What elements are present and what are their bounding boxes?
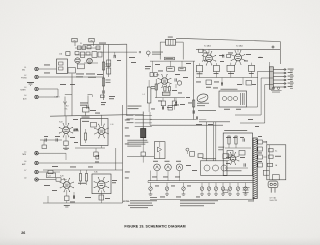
terminal screws rows [273, 69, 286, 88]
notes block left [123, 200, 157, 208]
chassis hatched bar [253, 138, 257, 199]
small box tuner feed [101, 95, 107, 105]
svg-text:J-4: J-4 [24, 95, 26, 97]
terminal labels stack [288, 69, 294, 89]
label V5 6AU6 [204, 45, 211, 48]
tiny label above notes [150, 196, 157, 199]
value labels scatter center [117, 57, 213, 125]
wire preamp cluster row y48 [75, 48, 100, 63]
cathode resistor under V2A [94, 148, 98, 157]
switch position notes [127, 140, 148, 147]
heater tap symbol 10 [244, 183, 248, 196]
svg-text:J-3: J-3 [24, 87, 26, 89]
page number 26 [21, 231, 25, 235]
wire selector bus y116 [50, 114, 143, 116]
wire y52 to test point [100, 52, 137, 58]
cathode parts under V1B [63, 135, 69, 149]
cathode network under V2B [64, 190, 75, 207]
jack J6 [22, 161, 38, 166]
capacitor C2 box [75, 52, 79, 55]
wire vertical x108.6 [108, 45, 110, 77]
jack J4 aux input [23, 95, 58, 100]
wire y119 run [150, 112, 196, 120]
shaded coupling box [162, 92, 170, 95]
resistor R10 box [78, 64, 85, 69]
wire long vertical x126.8 [126, 44, 128, 116]
value labels heater row [152, 165, 200, 197]
heater tube c [176, 164, 183, 171]
svg-text:V-2B: V-2B [60, 176, 63, 178]
value labels scatter right [196, 53, 263, 127]
heater tap symbol 7 [221, 183, 225, 196]
ground symbol left [27, 83, 34, 86]
svg-text:J-8: J-8 [24, 178, 26, 180]
driver box right of switch [154, 142, 165, 159]
tick near B plus [259, 56, 262, 58]
cap pair at y118 [196, 116, 206, 119]
wire V1B V2A plates up [66, 115, 102, 126]
wire y97.6 center [155, 97, 185, 99]
interstage resistor pair [78, 170, 88, 185]
label A-1 amp box [82, 116, 90, 119]
wire filter row y61 [150, 60, 195, 62]
svg-text:TP1: TP1 [73, 40, 76, 42]
bias box 470K [196, 63, 202, 74]
heater tap symbol 3 [182, 183, 186, 196]
wire tape jack row [38, 153, 122, 181]
heater tap symbol 1 [149, 183, 153, 196]
heater tube a [154, 164, 161, 171]
resistor R7 box [86, 52, 90, 55]
feedback wire c [240, 85, 273, 124]
tube V1B triode [59, 122, 73, 138]
selector labels above switch [128, 106, 142, 110]
svg-text:S-1: S-1 [275, 151, 278, 153]
wire y125 run [150, 120, 223, 126]
junction circle right of V3B [175, 78, 182, 88]
small parts under switch [141, 140, 145, 163]
choke L-5 vertical [143, 80, 151, 112]
small box top right of bar [263, 170, 269, 175]
svg-text:TP2: TP2 [90, 40, 93, 42]
terminal boxes right of bar [258, 140, 263, 167]
heater tap symbol 6 [214, 183, 218, 196]
tube V2B triode [60, 176, 74, 193]
AC line plug [268, 181, 278, 202]
svg-text:L-10: L-10 [110, 124, 113, 126]
heater tap symbol 2 [165, 183, 169, 196]
bias box C19 [213, 63, 219, 74]
bias box 220 [249, 63, 255, 74]
resistor R13 on ladder [102, 78, 110, 86]
label V6 6AQ5 [236, 45, 243, 48]
driver input box [199, 49, 207, 60]
test point symbol TP3 [139, 51, 163, 57]
heater tap symbol 8 [228, 183, 232, 196]
value labels scatter left [44, 65, 115, 143]
tube V3B pentode [156, 74, 171, 88]
verticals feeding heater box [206, 122, 216, 161]
tube V1A triode section [75, 58, 80, 63]
jack J8 [24, 178, 38, 182]
output transformer T2 box [219, 89, 247, 107]
filter cap box C11 [167, 61, 175, 71]
transformer T1 bridging coil [160, 37, 183, 60]
bias box 6.8K [227, 63, 235, 74]
wire vertical x103.5 ladder [103, 45, 105, 101]
speaker terminal strip bar [269, 62, 273, 89]
svg-text:J-5: J-5 [24, 151, 26, 153]
bottom cluster a [161, 98, 165, 110]
label V-1 12AX7 [80, 43, 106, 46]
tube V5 driver [202, 51, 216, 65]
small test boxes left of V3B [150, 61, 157, 76]
parts between V5 V6 [223, 54, 231, 57]
filter label box [165, 57, 175, 60]
speaker plug circles [271, 87, 282, 93]
meter oval neon [196, 93, 209, 107]
input network box [57, 59, 68, 74]
test point TP2 oval [89, 38, 94, 45]
volume control R9 arrow [55, 97, 69, 116]
wire pot top corners [65, 95, 93, 97]
power supply internals [225, 136, 251, 171]
svg-text:L-5: L-5 [143, 94, 145, 96]
wire vertical x115.8 [115, 148, 117, 170]
svg-text:V-1B: V-1B [59, 122, 62, 124]
wire preamp to selector vertical x72 [71, 74, 73, 117]
wire right amp top y49.3 [196, 49, 280, 53]
capacitor C6 on ladder [103, 90, 104, 93]
wire right amp mid y77.5 [196, 71, 258, 85]
heater tap symbol 9 [236, 183, 240, 196]
wire bottom bus left y203 [43, 196, 123, 203]
wire B+ top long run [176, 38, 280, 64]
resistor R4 box [87, 46, 91, 49]
bottom cluster b [172, 98, 176, 110]
fuse box small [198, 147, 229, 159]
preamp label row values [76, 74, 103, 78]
resistor zigzag R15 [74, 128, 79, 131]
jack J7 [24, 170, 38, 174]
wire bus y170 [43, 169, 123, 171]
jack J5 [22, 151, 38, 156]
plate resistor pair under V3B [164, 84, 171, 91]
resistor 12K on x193 rail [188, 100, 195, 114]
svg-text:C-12: C-12 [48, 175, 51, 177]
svg-text:J-7: J-7 [24, 170, 26, 172]
resistor boxes on x108 rail [107, 60, 111, 74]
heater labels [151, 161, 182, 181]
loudness switch box [83, 108, 90, 116]
balance cluster [168, 98, 179, 110]
resistor R12 on ladder [102, 62, 110, 70]
svg-text:NOTES:: NOTES: [123, 201, 130, 203]
switch wafer dark [141, 129, 146, 138]
feedback wire a [247, 71, 274, 107]
amp box with tube V3A [92, 170, 111, 193]
rotary tone switch S2 [127, 112, 152, 140]
cathode network under V3A [99, 190, 104, 203]
label column right of x122 rail [125, 120, 130, 179]
wire y121.8 run [199, 121, 230, 123]
caption figure title [124, 225, 185, 229]
capacitor C3 box [80, 52, 84, 57]
resistor R6 box [96, 46, 100, 50]
svg-text:FIGURE 19. SCHEMATIC DIAGRAM: FIGURE 19. SCHEMATIC DIAGRAM [124, 225, 185, 229]
svg-text:V-1: V-1 [80, 43, 82, 45]
svg-text:J-6: J-6 [24, 161, 26, 163]
resistor R2 box [77, 46, 81, 50]
coupling cap boxes right amp [206, 80, 252, 88]
switch notes underline box [95, 155, 154, 162]
value labels scatter power [226, 136, 267, 164]
jack J1 mic input [22, 67, 57, 71]
filter cap box C13 [179, 61, 186, 71]
svg-text:R-9: R-9 [66, 106, 69, 108]
wire heater bottom y199.5 [150, 198, 255, 202]
notes block right [180, 200, 218, 206]
filter label row y111 [198, 109, 216, 112]
resistor R8 box [98, 52, 102, 57]
svg-text:TUNER: TUNER [20, 90, 26, 92]
wire y140 coupling row [40, 136, 62, 149]
ground test circle [186, 148, 195, 156]
B plus mark [272, 46, 275, 49]
amp stage box with tube V2A [81, 119, 114, 146]
jack J3 tuner input [20, 87, 58, 96]
svg-text:50-60 CPS: 50-60 CPS [270, 200, 277, 202]
svg-text:26: 26 [21, 231, 25, 235]
wire preamp top bus y44.8 [83, 43, 127, 46]
heater bus double line [148, 181, 253, 183]
tube V1B triode section small [87, 58, 93, 64]
svg-text:1 MEG: 1 MEG [55, 97, 61, 99]
value labels scatter left low [44, 166, 117, 202]
capacitor C4 box [92, 52, 97, 58]
svg-text:PHONO: PHONO [21, 78, 28, 80]
note small far right [248, 200, 253, 203]
capacitor C5A oval [59, 52, 70, 56]
heater tap symbol 5 [207, 183, 211, 196]
wire y148 below box [75, 146, 105, 149]
test point TP1 oval [72, 38, 77, 46]
heater box right [201, 158, 228, 175]
power supply box B1 [223, 130, 252, 176]
svg-text:V-3B: V-3B [156, 75, 159, 77]
label box C-12 [47, 173, 56, 178]
heater tube b [165, 164, 172, 171]
loudness labels cluster [80, 96, 88, 109]
rectifier tube V7 [227, 152, 240, 165]
small boxes between taps [223, 187, 250, 193]
resistor 470K between stages [84, 129, 86, 143]
svg-text:J-2: J-2 [24, 75, 26, 77]
resistor R11 box [68, 68, 75, 73]
AC control box [263, 141, 286, 180]
vertical rail x156 with parts [151, 79, 157, 98]
wire vertical x193.7 [193, 61, 195, 119]
resistor R3 box [82, 46, 86, 50]
heater tap symbol 4 [200, 183, 204, 196]
jack J2 phono input [21, 75, 104, 79]
wire long vertical x122.5 [122, 105, 124, 203]
feedback wire b [235, 78, 273, 115]
tube V6 output [231, 50, 246, 65]
